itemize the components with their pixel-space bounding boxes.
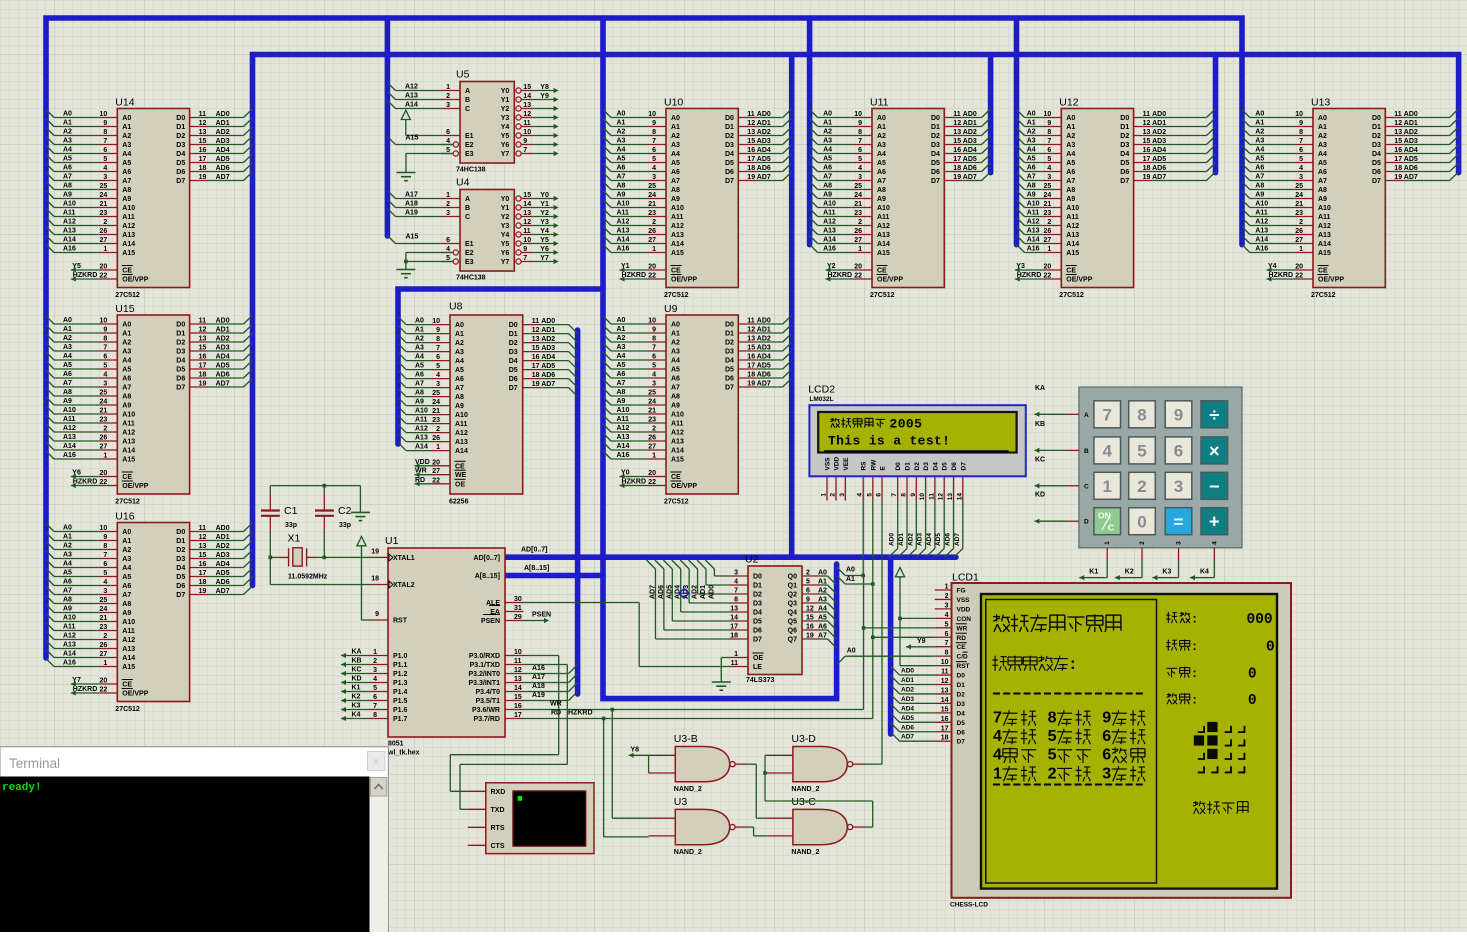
- wire U15 pin A8 net A8: [54, 395, 99, 397]
- svg-text:A10: A10: [63, 615, 76, 622]
- svg-text:A16: A16: [1255, 246, 1268, 253]
- wire U2 pin D0 from AD bus: [730, 575, 749, 577]
- svg-text:9: 9: [858, 120, 862, 127]
- svg-text:AD1: AD1: [216, 327, 230, 334]
- svg-text:AD7: AD7: [649, 585, 656, 599]
- svg-text:1: 1: [1299, 246, 1303, 253]
- svg-text:P3.4/T0: P3.4/T0: [475, 689, 500, 696]
- svg-text:AD7: AD7: [963, 174, 977, 181]
- svg-text:U3-C: U3-C: [791, 796, 816, 808]
- svg-text:A13: A13: [1027, 228, 1040, 235]
- svg-text:3: 3: [652, 381, 656, 388]
- svg-text:A4: A4: [63, 147, 72, 154]
- wire U11 pin D1 net AD1: [944, 126, 963, 128]
- wire U14 pin A3 net A3: [54, 144, 99, 146]
- svg-text:27: 27: [100, 237, 108, 244]
- svg-text:A10: A10: [1027, 201, 1040, 208]
- svg-text:15: 15: [1394, 138, 1402, 145]
- svg-text:HZKRD: HZKRD: [73, 272, 98, 279]
- svg-text:D0: D0: [931, 115, 940, 122]
- svg-text:A[8..15]: A[8..15]: [524, 565, 549, 572]
- wire U9 CE net Y0: [620, 474, 625, 479]
- svg-text:11: 11: [199, 111, 207, 118]
- svg-text:A5: A5: [671, 367, 680, 374]
- svg-text:9: 9: [375, 611, 379, 618]
- svg-text:A5: A5: [823, 156, 832, 163]
- wire U9 pin D4 net AD4: [738, 359, 757, 361]
- svg-text:14: 14: [523, 201, 531, 208]
- wire net Y9 terminal to LCD1 CE: [906, 644, 911, 649]
- svg-text:AD6: AD6: [963, 165, 977, 172]
- svg-text:3: 3: [103, 588, 107, 595]
- svg-text:11: 11: [199, 525, 207, 532]
- svg-text:2: 2: [1139, 541, 1146, 545]
- svg-text:D3: D3: [725, 142, 734, 149]
- svg-text:CE: CE: [455, 463, 465, 470]
- svg-text:C: C: [1108, 523, 1114, 533]
- svg-text:1: 1: [1102, 477, 1111, 496]
- svg-text:D4: D4: [176, 565, 185, 572]
- svg-text:16: 16: [747, 147, 755, 154]
- svg-text:D4: D4: [176, 358, 185, 365]
- svg-text:A12: A12: [617, 219, 630, 226]
- svg-text:A14: A14: [671, 241, 684, 248]
- wire U13 pin A3 net A3: [1250, 144, 1295, 146]
- svg-text:D5: D5: [725, 367, 734, 374]
- svg-text:WR: WR: [957, 625, 968, 632]
- svg-text:Q0: Q0: [788, 574, 797, 581]
- svg-text:13: 13: [199, 543, 207, 550]
- svg-text:A4: A4: [1318, 151, 1327, 158]
- U9 address pin stubs and numbers: [648, 323, 667, 325]
- svg-text:A0: A0: [847, 648, 856, 655]
- svg-text:5: 5: [1048, 728, 1057, 745]
- svg-text:Y3: Y3: [501, 223, 510, 230]
- svg-text:A1: A1: [617, 326, 626, 333]
- wire U15 pin D5 net AD5: [190, 368, 209, 370]
- svg-text:2: 2: [830, 493, 837, 497]
- svg-text:A8: A8: [671, 394, 680, 401]
- svg-text:15: 15: [523, 192, 531, 199]
- svg-text:27C512: 27C512: [1311, 292, 1336, 299]
- svg-text:A4: A4: [63, 353, 72, 360]
- wire U16 pin A4 net A4: [54, 567, 99, 569]
- wire U16 pin D1 net AD1: [190, 540, 209, 542]
- wire U8 pin D5 net AD5: [523, 369, 542, 371]
- svg-text:D2: D2: [1120, 133, 1129, 140]
- svg-text:AD1: AD1: [700, 585, 707, 599]
- bus: vertical right of U11: [988, 55, 994, 173]
- svg-text:2: 2: [446, 93, 450, 100]
- svg-text:Y9: Y9: [917, 638, 926, 645]
- svg-text:14: 14: [730, 615, 738, 622]
- svg-text:D3: D3: [725, 349, 734, 356]
- svg-text:A3: A3: [617, 344, 626, 351]
- svg-text:2: 2: [945, 593, 949, 600]
- wire LCD2 D0 net AD0: [897, 501, 899, 549]
- svg-text:RW: RW: [870, 459, 877, 471]
- svg-text:A14: A14: [1027, 237, 1040, 244]
- svg-text:A0: A0: [617, 317, 626, 324]
- svg-text:AD5: AD5: [216, 363, 230, 370]
- svg-text:A2: A2: [1318, 133, 1327, 140]
- svg-text:U10: U10: [664, 97, 683, 109]
- svg-text:A9: A9: [671, 403, 680, 410]
- svg-text:NAND_2: NAND_2: [791, 786, 819, 793]
- wire U16 pin D6 net AD6: [190, 585, 209, 587]
- svg-text:A5: A5: [671, 160, 680, 167]
- wire U14 pin A11 net A11: [54, 216, 99, 218]
- svg-text:3: 3: [839, 493, 846, 497]
- U5 input pin stubs: [442, 90, 461, 92]
- svg-text:HZKRD: HZKRD: [73, 686, 98, 693]
- svg-text:12: 12: [806, 606, 814, 613]
- svg-text:24: 24: [432, 399, 440, 406]
- LCD1 pin 18 D7: [935, 740, 952, 742]
- svg-text:A0: A0: [818, 570, 827, 577]
- svg-text:D1: D1: [957, 682, 966, 689]
- svg-text:CON: CON: [957, 616, 972, 623]
- svg-text:E2: E2: [465, 142, 474, 149]
- svg-text:AD0: AD0: [889, 533, 896, 546]
- svg-text:AD5: AD5: [216, 570, 230, 577]
- svg-text:C/D: C/D: [957, 654, 969, 661]
- svg-text:26: 26: [1295, 228, 1303, 235]
- svg-text:74LS373: 74LS373: [746, 677, 775, 684]
- wire C2 bottom to XTAL1 node: [323, 531, 325, 558]
- svg-text:D3: D3: [923, 462, 930, 471]
- svg-text:11: 11: [523, 228, 531, 235]
- svg-text:A3: A3: [415, 345, 424, 352]
- LCD2 cursor underline: [824, 450, 1008, 452]
- svg-text:C2: C2: [338, 505, 352, 517]
- svg-text:A4: A4: [877, 151, 886, 158]
- svg-text:AD3: AD3: [541, 345, 555, 352]
- svg-text:10: 10: [941, 659, 949, 666]
- svg-text:24: 24: [100, 192, 108, 199]
- svg-text:24: 24: [648, 399, 656, 406]
- wire U16 pin D5 net AD5: [190, 576, 209, 578]
- svg-text:25: 25: [648, 390, 656, 397]
- decoder U4 74HC138 body: [460, 190, 514, 272]
- svg-text:A9: A9: [63, 606, 72, 613]
- svg-text:10: 10: [523, 129, 531, 136]
- svg-text:4: 4: [652, 165, 656, 172]
- svg-text:AD2: AD2: [907, 533, 914, 546]
- svg-text:A6: A6: [671, 169, 680, 176]
- virtual terminal VT1 body: [486, 783, 594, 854]
- svg-text:A15: A15: [671, 250, 684, 257]
- svg-text:A8: A8: [455, 394, 464, 401]
- svg-text:13: 13: [1143, 129, 1151, 136]
- svg-text:P1.7: P1.7: [393, 716, 408, 723]
- wire net Y8 terminal into U3-B inputs: [629, 753, 634, 758]
- svg-text:1: 1: [103, 660, 107, 667]
- svg-text:AD1: AD1: [898, 533, 905, 546]
- svg-text:A3: A3: [671, 142, 680, 149]
- svg-text:Y1: Y1: [621, 263, 630, 270]
- wire U12 pin A11 net A11: [1025, 216, 1043, 218]
- svg-text:19: 19: [1143, 174, 1151, 181]
- svg-text:A9: A9: [122, 610, 131, 617]
- svg-text:A14: A14: [122, 655, 135, 662]
- svg-text:13: 13: [514, 676, 522, 683]
- wire U9 pin D6 net AD6: [738, 377, 757, 379]
- svg-text:A2: A2: [823, 129, 832, 136]
- svg-text:A1: A1: [122, 124, 131, 131]
- svg-text:9: 9: [523, 138, 527, 145]
- svg-text:A15: A15: [1318, 250, 1331, 257]
- LCD1 pin 15 D4: [935, 712, 952, 714]
- wire U11 pin D0 net AD0: [944, 117, 963, 119]
- svg-text:HZKRD: HZKRD: [568, 710, 593, 717]
- wire U11 pin A3 net A3: [818, 144, 854, 146]
- memory U9 27C512 body: [666, 315, 738, 494]
- svg-text:HZKRD: HZKRD: [1269, 272, 1294, 279]
- wire LCD2 D7 net AD7: [962, 501, 964, 549]
- svg-text:A6: A6: [823, 165, 832, 172]
- svg-text:25: 25: [1044, 183, 1052, 190]
- wire U11 pin D5 net AD5: [944, 162, 963, 164]
- svg-text:3: 3: [1174, 477, 1183, 496]
- svg-text:Y5: Y5: [72, 263, 81, 270]
- svg-text:A0: A0: [122, 529, 131, 536]
- wire U8 pin A10: [432, 414, 451, 416]
- junction X1 left / C1 net: [270, 556, 279, 558]
- svg-text:Y1: Y1: [501, 205, 510, 212]
- wire U8 pin A7: [432, 387, 451, 389]
- svg-text:7: 7: [103, 138, 107, 145]
- svg-text:AD6: AD6: [757, 165, 771, 172]
- wire U10 pin D7 net AD7: [738, 180, 757, 182]
- wire U1 P1.7 net K4: [370, 718, 389, 720]
- svg-text:3: 3: [436, 381, 440, 388]
- wire U16 pin A12 net A12: [54, 639, 99, 641]
- memory U11 27C512 body: [872, 109, 944, 288]
- svg-text:A7: A7: [818, 633, 827, 640]
- svg-text:A5: A5: [122, 574, 131, 581]
- wire U9 pin D5 net AD5: [738, 368, 757, 370]
- svg-text:3: 3: [103, 174, 107, 181]
- svg-text:A2: A2: [63, 543, 72, 550]
- svg-text:AD4: AD4: [926, 533, 933, 546]
- wire U12 pin D1 net AD1: [1134, 126, 1153, 128]
- wire U15 pin A14 net A14: [54, 449, 99, 451]
- svg-text:24: 24: [100, 399, 108, 406]
- svg-text:14: 14: [956, 493, 963, 501]
- svg-text:2: 2: [652, 426, 656, 433]
- svg-text:D5: D5: [176, 574, 185, 581]
- svg-text:CHESS-LCD: CHESS-LCD: [950, 902, 988, 909]
- svg-text:VDD: VDD: [834, 456, 841, 470]
- wire U13 pin A9 net A9: [1250, 198, 1295, 200]
- svg-text:10: 10: [523, 237, 531, 244]
- wire U8 WE net WR: [432, 474, 451, 476]
- svg-text:25: 25: [854, 183, 862, 190]
- wire U1 P1.2 net KC: [370, 673, 389, 675]
- svg-text:D1: D1: [753, 583, 762, 590]
- svg-text:21: 21: [100, 615, 108, 622]
- wire U13 pin D4 net AD4: [1385, 153, 1404, 155]
- svg-text:4: 4: [993, 747, 1002, 764]
- svg-text:A2: A2: [818, 588, 827, 595]
- svg-text:18: 18: [199, 165, 207, 172]
- svg-text:A4: A4: [1255, 147, 1264, 154]
- svg-text::: :: [1193, 666, 1197, 680]
- svg-text:9: 9: [103, 120, 107, 127]
- svg-text:A4: A4: [1066, 151, 1075, 158]
- svg-text:AD5: AD5: [963, 156, 977, 163]
- wire keypad row KD: [1067, 520, 1079, 522]
- wire U10 pin D4 net AD4: [738, 153, 757, 155]
- svg-text:A13: A13: [1255, 228, 1268, 235]
- svg-text:9: 9: [652, 327, 656, 334]
- svg-text:LM032L: LM032L: [809, 396, 833, 403]
- svg-text:A8: A8: [1318, 187, 1327, 194]
- wire U9 pin A10 net A10: [611, 413, 648, 415]
- svg-text:AD5: AD5: [541, 363, 555, 370]
- svg-text:AD[0..7]: AD[0..7]: [521, 547, 547, 554]
- svg-text:20: 20: [648, 264, 656, 271]
- terminal window scrollbar: [370, 777, 388, 933]
- svg-text:AD1: AD1: [1404, 120, 1418, 127]
- wire U11 pin A14 net A14: [818, 243, 854, 245]
- wire U13 pin A11 net A11: [1250, 216, 1295, 218]
- wire U9 pin A0 net A0: [611, 323, 648, 325]
- wire U1 ALE to U2 LE: [524, 602, 640, 604]
- svg-text:10: 10: [100, 111, 108, 118]
- wire U15 pin A4 net A4: [54, 359, 99, 361]
- svg-text:Terminal: Terminal: [9, 756, 60, 771]
- svg-text:15: 15: [532, 345, 540, 352]
- svg-text:1: 1: [436, 444, 440, 451]
- wire net RD vertical (LCD2 RW / LCD1 RD / U1 RD): [872, 584, 874, 719]
- svg-text:AD0: AD0: [216, 111, 230, 118]
- wire U12 pin A13 net A13: [1025, 234, 1043, 236]
- svg-text:A14: A14: [823, 237, 836, 244]
- svg-text:A8: A8: [122, 394, 131, 401]
- svg-text:A2: A2: [671, 133, 680, 140]
- svg-text:2: 2: [436, 426, 440, 433]
- LCD1 pin 10 RST: [935, 665, 952, 667]
- svg-text:18: 18: [199, 579, 207, 586]
- svg-text:A14: A14: [405, 102, 418, 109]
- wire U10 pin D6 net AD6: [738, 171, 757, 173]
- wire U11 pin D2 net AD2: [944, 135, 963, 137]
- svg-text:−: −: [1209, 476, 1220, 496]
- wire U4 output Y5 net Y5: [533, 243, 556, 245]
- svg-text:25: 25: [432, 390, 440, 397]
- wire U1 net A17: [524, 682, 569, 684]
- svg-text:+: +: [1209, 512, 1220, 532]
- svg-text:D1: D1: [176, 538, 185, 545]
- svg-text:A11: A11: [877, 214, 890, 221]
- svg-text:1: 1: [446, 84, 450, 91]
- svg-text:AD4: AD4: [216, 354, 230, 361]
- bus: vertical V-D big left of U9/U10 + bottom run H4 + riser to U2 outputs: [603, 18, 837, 699]
- wire WR down to gate U3 input A: [611, 708, 615, 712]
- svg-text:2: 2: [1299, 219, 1303, 226]
- svg-text:AD1: AD1: [901, 677, 914, 684]
- keypad keys row 1: 7 8 9 divide: [1094, 401, 1121, 428]
- U1 left pin stubs: [370, 556, 389, 558]
- wire U9 pin A13 net A13: [611, 440, 648, 442]
- svg-text:62256: 62256: [449, 499, 469, 506]
- svg-text:13: 13: [747, 336, 755, 343]
- svg-text:13: 13: [947, 493, 954, 501]
- svg-text:CE: CE: [122, 474, 132, 481]
- capacitor C2 33p: [323, 486, 325, 494]
- svg-text:1: 1: [103, 246, 107, 253]
- bus: U8 address bus branch: [398, 289, 603, 444]
- wire U13 OE net HZKRD: [1267, 276, 1272, 281]
- svg-text:18: 18: [199, 372, 207, 379]
- svg-text:A6: A6: [122, 583, 131, 590]
- wire U2 OE to ground: [730, 657, 749, 659]
- wire U11 pin A6 net A6: [818, 171, 854, 173]
- svg-text:74HC138: 74HC138: [456, 167, 486, 174]
- svg-text:18: 18: [371, 576, 379, 583]
- svg-text:A7: A7: [671, 178, 680, 185]
- wire U16 pin D3 net AD3: [190, 558, 209, 560]
- svg-text:A4: A4: [122, 565, 131, 572]
- wire U1 P1.1 net KB: [370, 664, 389, 666]
- U5 output pins with bubbles: [516, 88, 521, 93]
- svg-text:AD6: AD6: [945, 533, 952, 546]
- wire U9 pin A11 net A11: [611, 422, 648, 424]
- svg-text:2: 2: [1137, 477, 1146, 496]
- svg-text:1: 1: [734, 651, 738, 658]
- svg-text:AD2: AD2: [541, 336, 555, 343]
- junction U3-D input B: [763, 771, 767, 775]
- svg-text:6: 6: [858, 147, 862, 154]
- wire U9 pin A1 net A1: [611, 332, 648, 334]
- svg-text:AD0: AD0: [757, 111, 771, 118]
- svg-text:13: 13: [953, 129, 961, 136]
- svg-text:26: 26: [648, 435, 656, 442]
- wire U9 pin A14 net A14: [611, 449, 648, 451]
- svg-text:A15: A15: [406, 135, 419, 142]
- svg-text:D2: D2: [176, 340, 185, 347]
- LCD1 left text panel border: [986, 600, 1157, 884]
- svg-text::: :: [1070, 655, 1076, 673]
- wire U8 pin A4: [432, 360, 451, 362]
- svg-text:A1: A1: [63, 534, 72, 541]
- wire power to RST: [362, 619, 370, 621]
- wire U15 pin A11 net A11: [54, 422, 99, 424]
- svg-text:U15: U15: [115, 303, 134, 315]
- svg-text:A2: A2: [122, 547, 131, 554]
- svg-text:D6: D6: [176, 169, 185, 176]
- svg-text:KC: KC: [352, 667, 362, 674]
- svg-text:A14: A14: [122, 448, 135, 455]
- svg-text:AD1: AD1: [541, 327, 555, 334]
- svg-text:A9: A9: [1027, 192, 1036, 199]
- svg-text:12: 12: [532, 327, 540, 334]
- svg-text:9: 9: [103, 534, 107, 541]
- svg-text:27C512: 27C512: [664, 499, 689, 506]
- svg-text:×: ×: [373, 756, 379, 768]
- svg-text:A5: A5: [818, 615, 827, 622]
- svg-text:8: 8: [373, 712, 377, 719]
- svg-text:12: 12: [514, 667, 522, 674]
- svg-text:B: B: [1084, 448, 1089, 455]
- svg-text:A11: A11: [1255, 210, 1268, 217]
- svg-text:U16: U16: [115, 511, 134, 523]
- svg-text:A6: A6: [415, 372, 424, 379]
- svg-text:6: 6: [1047, 147, 1051, 154]
- svg-text:D4: D4: [753, 610, 762, 617]
